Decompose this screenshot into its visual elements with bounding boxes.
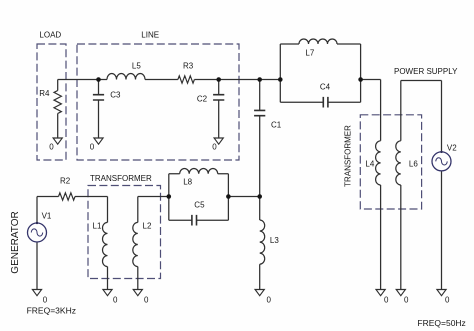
- svg-text:0: 0: [404, 296, 409, 305]
- svg-text:LOAD: LOAD: [39, 31, 61, 40]
- svg-text:L5: L5: [132, 62, 141, 71]
- svg-text:0: 0: [445, 296, 450, 305]
- svg-text:0: 0: [113, 296, 118, 305]
- svg-text:FREQ=50Hz: FREQ=50Hz: [417, 318, 465, 328]
- svg-text:C5: C5: [194, 201, 205, 210]
- svg-text:C3: C3: [110, 91, 121, 100]
- svg-text:0: 0: [90, 143, 95, 152]
- svg-text:L8: L8: [183, 178, 192, 187]
- svg-text:POWER SUPPLY: POWER SUPPLY: [394, 67, 458, 76]
- svg-text:TRANSFORMER: TRANSFORMER: [90, 174, 152, 183]
- svg-text:R3: R3: [183, 62, 194, 71]
- svg-text:GENERATOR: GENERATOR: [10, 211, 21, 273]
- svg-text:R2: R2: [60, 177, 71, 186]
- svg-text:0: 0: [49, 143, 54, 152]
- svg-text:L6: L6: [409, 160, 418, 169]
- svg-text:R4: R4: [39, 89, 50, 98]
- svg-text:C1: C1: [271, 121, 282, 130]
- svg-text:L1: L1: [93, 222, 102, 231]
- svg-text:0: 0: [267, 296, 272, 305]
- svg-text:L4: L4: [365, 160, 374, 169]
- svg-text:L3: L3: [270, 236, 279, 245]
- svg-text:TRANSFORMER: TRANSFORMER: [344, 125, 353, 187]
- svg-text:L2: L2: [143, 222, 152, 231]
- svg-text:V2: V2: [447, 144, 457, 153]
- svg-text:0: 0: [384, 296, 389, 305]
- svg-text:FREQ=3KHz: FREQ=3KHz: [27, 306, 76, 316]
- svg-text:LINE: LINE: [141, 31, 159, 40]
- svg-text:0: 0: [144, 296, 149, 305]
- svg-text:V1: V1: [42, 212, 52, 221]
- svg-text:0: 0: [43, 296, 48, 305]
- svg-text:C2: C2: [197, 95, 208, 104]
- svg-text:C4: C4: [320, 83, 331, 92]
- svg-text:L7: L7: [305, 49, 314, 58]
- svg-text:0: 0: [212, 143, 217, 152]
